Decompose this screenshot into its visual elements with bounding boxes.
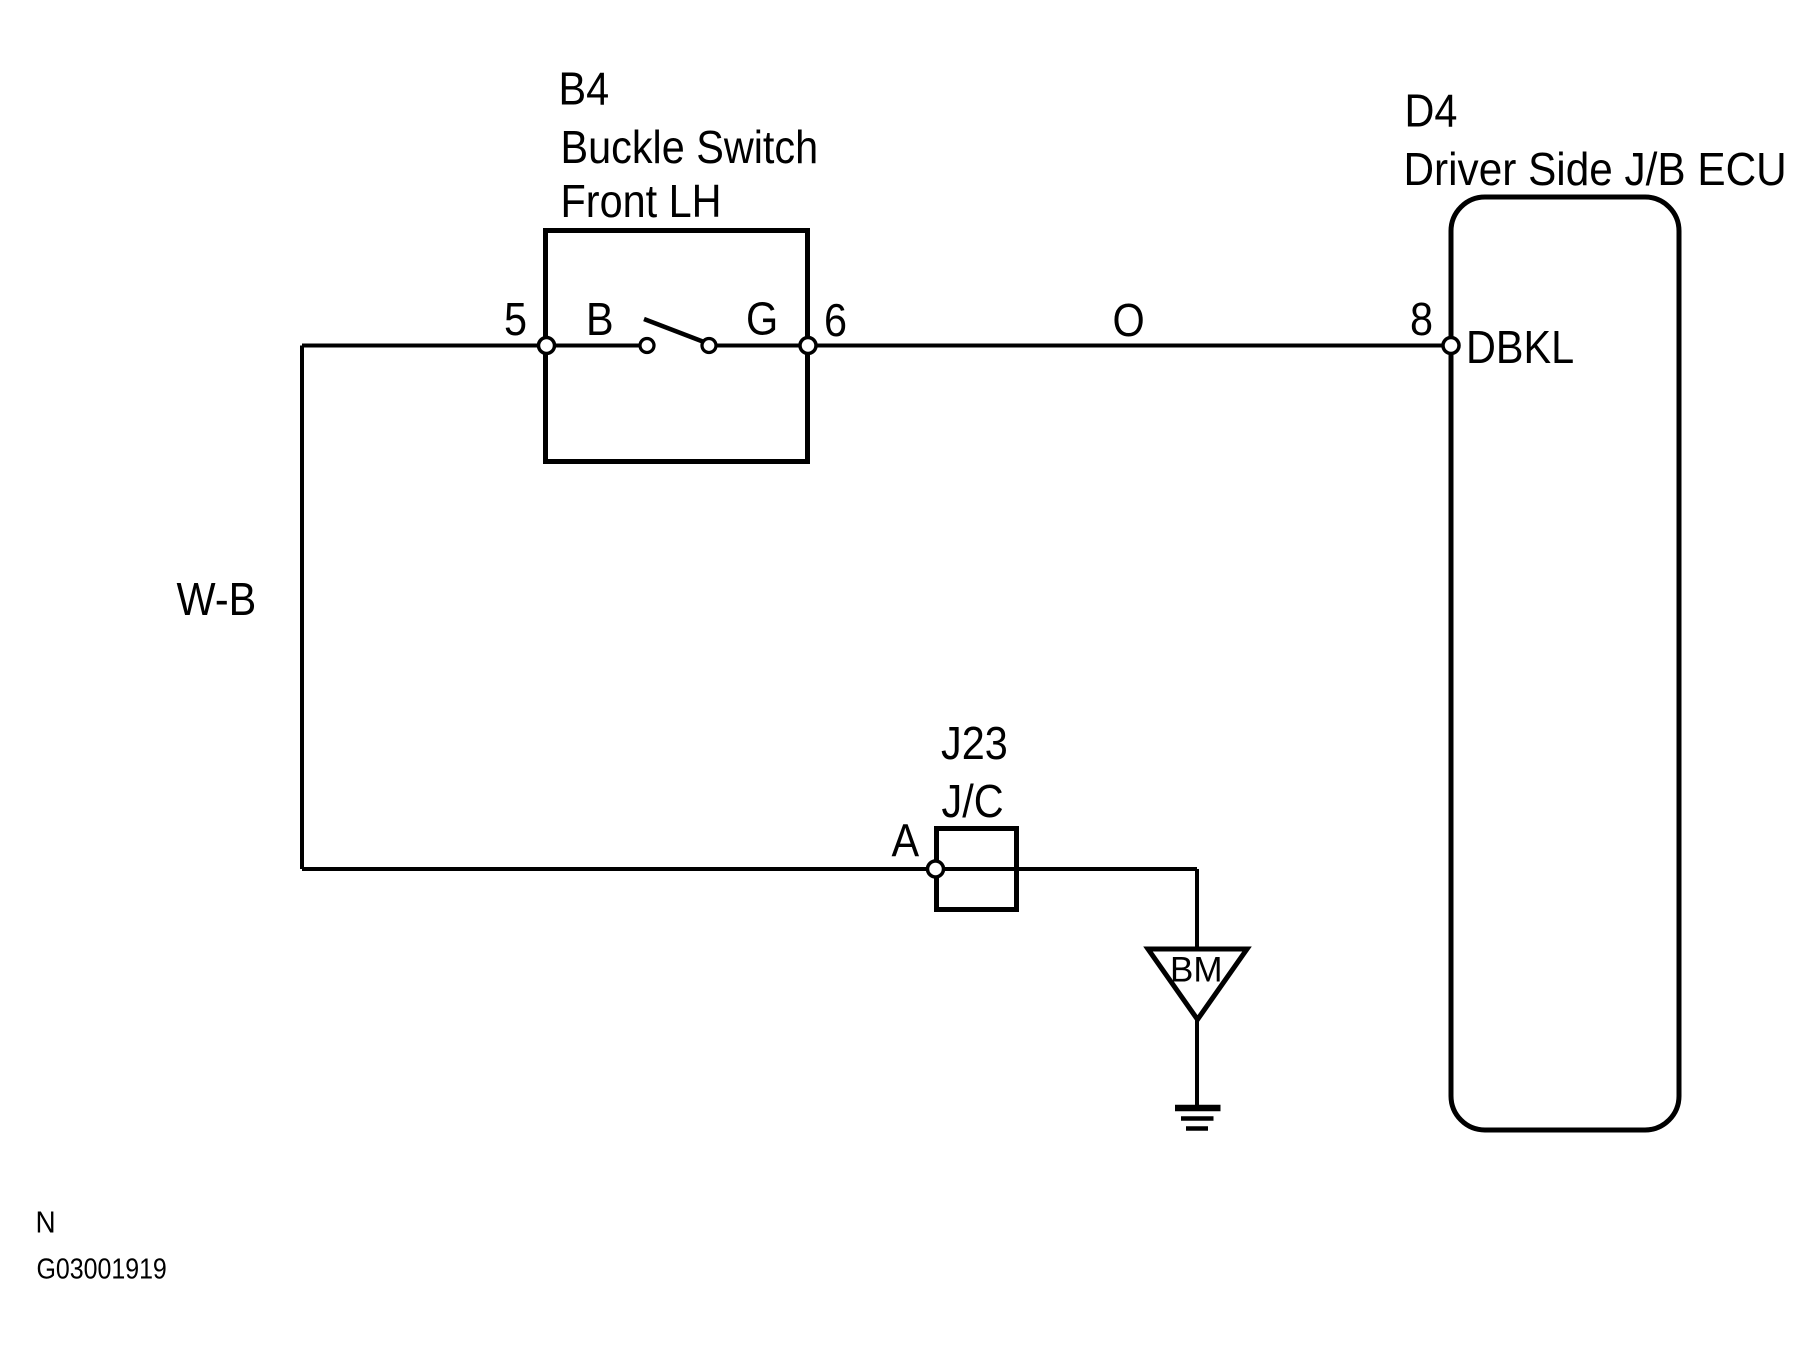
svg-text:D4: D4 <box>1405 86 1458 138</box>
svg-text:B4: B4 <box>559 64 610 116</box>
svg-text:5: 5 <box>504 294 527 346</box>
svg-text:J23: J23 <box>941 718 1008 770</box>
svg-text:Front LH: Front LH <box>561 176 722 228</box>
svg-text:A: A <box>892 816 920 868</box>
svg-text:Buckle Switch: Buckle Switch <box>561 122 819 174</box>
svg-text:BM: BM <box>1170 950 1223 989</box>
svg-text:G03001919: G03001919 <box>37 1253 167 1285</box>
svg-text:W-B: W-B <box>177 574 257 626</box>
svg-text:DBKL: DBKL <box>1466 322 1574 374</box>
svg-text:Driver Side J/B ECU: Driver Side J/B ECU <box>1404 144 1787 195</box>
svg-text:6: 6 <box>824 295 847 347</box>
svg-text:B: B <box>586 294 614 346</box>
svg-text:8: 8 <box>1410 294 1433 346</box>
svg-text:O: O <box>1113 295 1145 347</box>
svg-text:N: N <box>36 1205 56 1240</box>
svg-text:J/C: J/C <box>942 776 1004 828</box>
svg-text:G: G <box>746 294 778 346</box>
